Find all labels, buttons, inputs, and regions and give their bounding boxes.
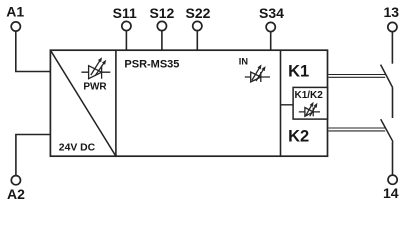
svg-text:K1: K1 — [288, 62, 309, 80]
stub wire to K1/K2 box — [281, 104, 294, 106]
svg-text:K1/K2: K1/K2 — [295, 90, 324, 101]
wire between contacts — [392, 88, 394, 119]
contact K2 blade — [381, 119, 393, 142]
wire S12 — [161, 31, 163, 50]
divider between power section and logic section — [115, 50, 117, 156]
svg-text:A1: A1 — [6, 4, 24, 20]
svg-text:S12: S12 — [149, 5, 174, 21]
K1/K2 indicator box — [293, 87, 327, 119]
terminal S11 — [113, 5, 137, 31]
wire 13 to contact — [391, 32, 393, 64]
LED PWR — [81, 57, 110, 78]
svg-text:14: 14 — [383, 185, 399, 201]
terminal 14 — [383, 175, 399, 201]
wire S22 — [196, 31, 198, 50]
terminal S34 — [259, 5, 284, 32]
wire A1 to box — [16, 31, 51, 71]
terminal A1 — [6, 4, 24, 31]
wire A2 to box — [16, 135, 51, 176]
svg-text:S11: S11 — [113, 5, 137, 21]
svg-text:PSR-MS35: PSR-MS35 — [124, 58, 179, 70]
contact K1 blade — [381, 65, 393, 88]
svg-text:IN: IN — [239, 56, 249, 66]
main module box — [50, 50, 327, 156]
LED K1/K2 — [299, 102, 320, 117]
svg-text:24V DC: 24V DC — [59, 142, 96, 153]
wire contact to 14 — [392, 142, 394, 175]
actuation double line contact 2 — [328, 128, 385, 131]
terminal A2 — [7, 176, 25, 203]
svg-text:K2: K2 — [288, 127, 309, 145]
LED IN — [245, 64, 270, 82]
svg-text:13: 13 — [384, 4, 400, 20]
svg-text:A2: A2 — [7, 186, 25, 202]
terminal S22 — [186, 5, 211, 31]
divider between logic section and relay section — [280, 50, 282, 156]
wire S11 — [125, 31, 127, 50]
svg-text:S34: S34 — [259, 5, 284, 21]
terminal 13 — [384, 4, 400, 32]
wire S34 — [270, 32, 272, 50]
svg-text:PWR: PWR — [83, 82, 107, 93]
actuation double line contact 1 — [328, 75, 385, 78]
terminal S12 — [149, 5, 174, 31]
power supply diagonal — [50, 50, 116, 156]
svg-text:S22: S22 — [186, 5, 211, 21]
